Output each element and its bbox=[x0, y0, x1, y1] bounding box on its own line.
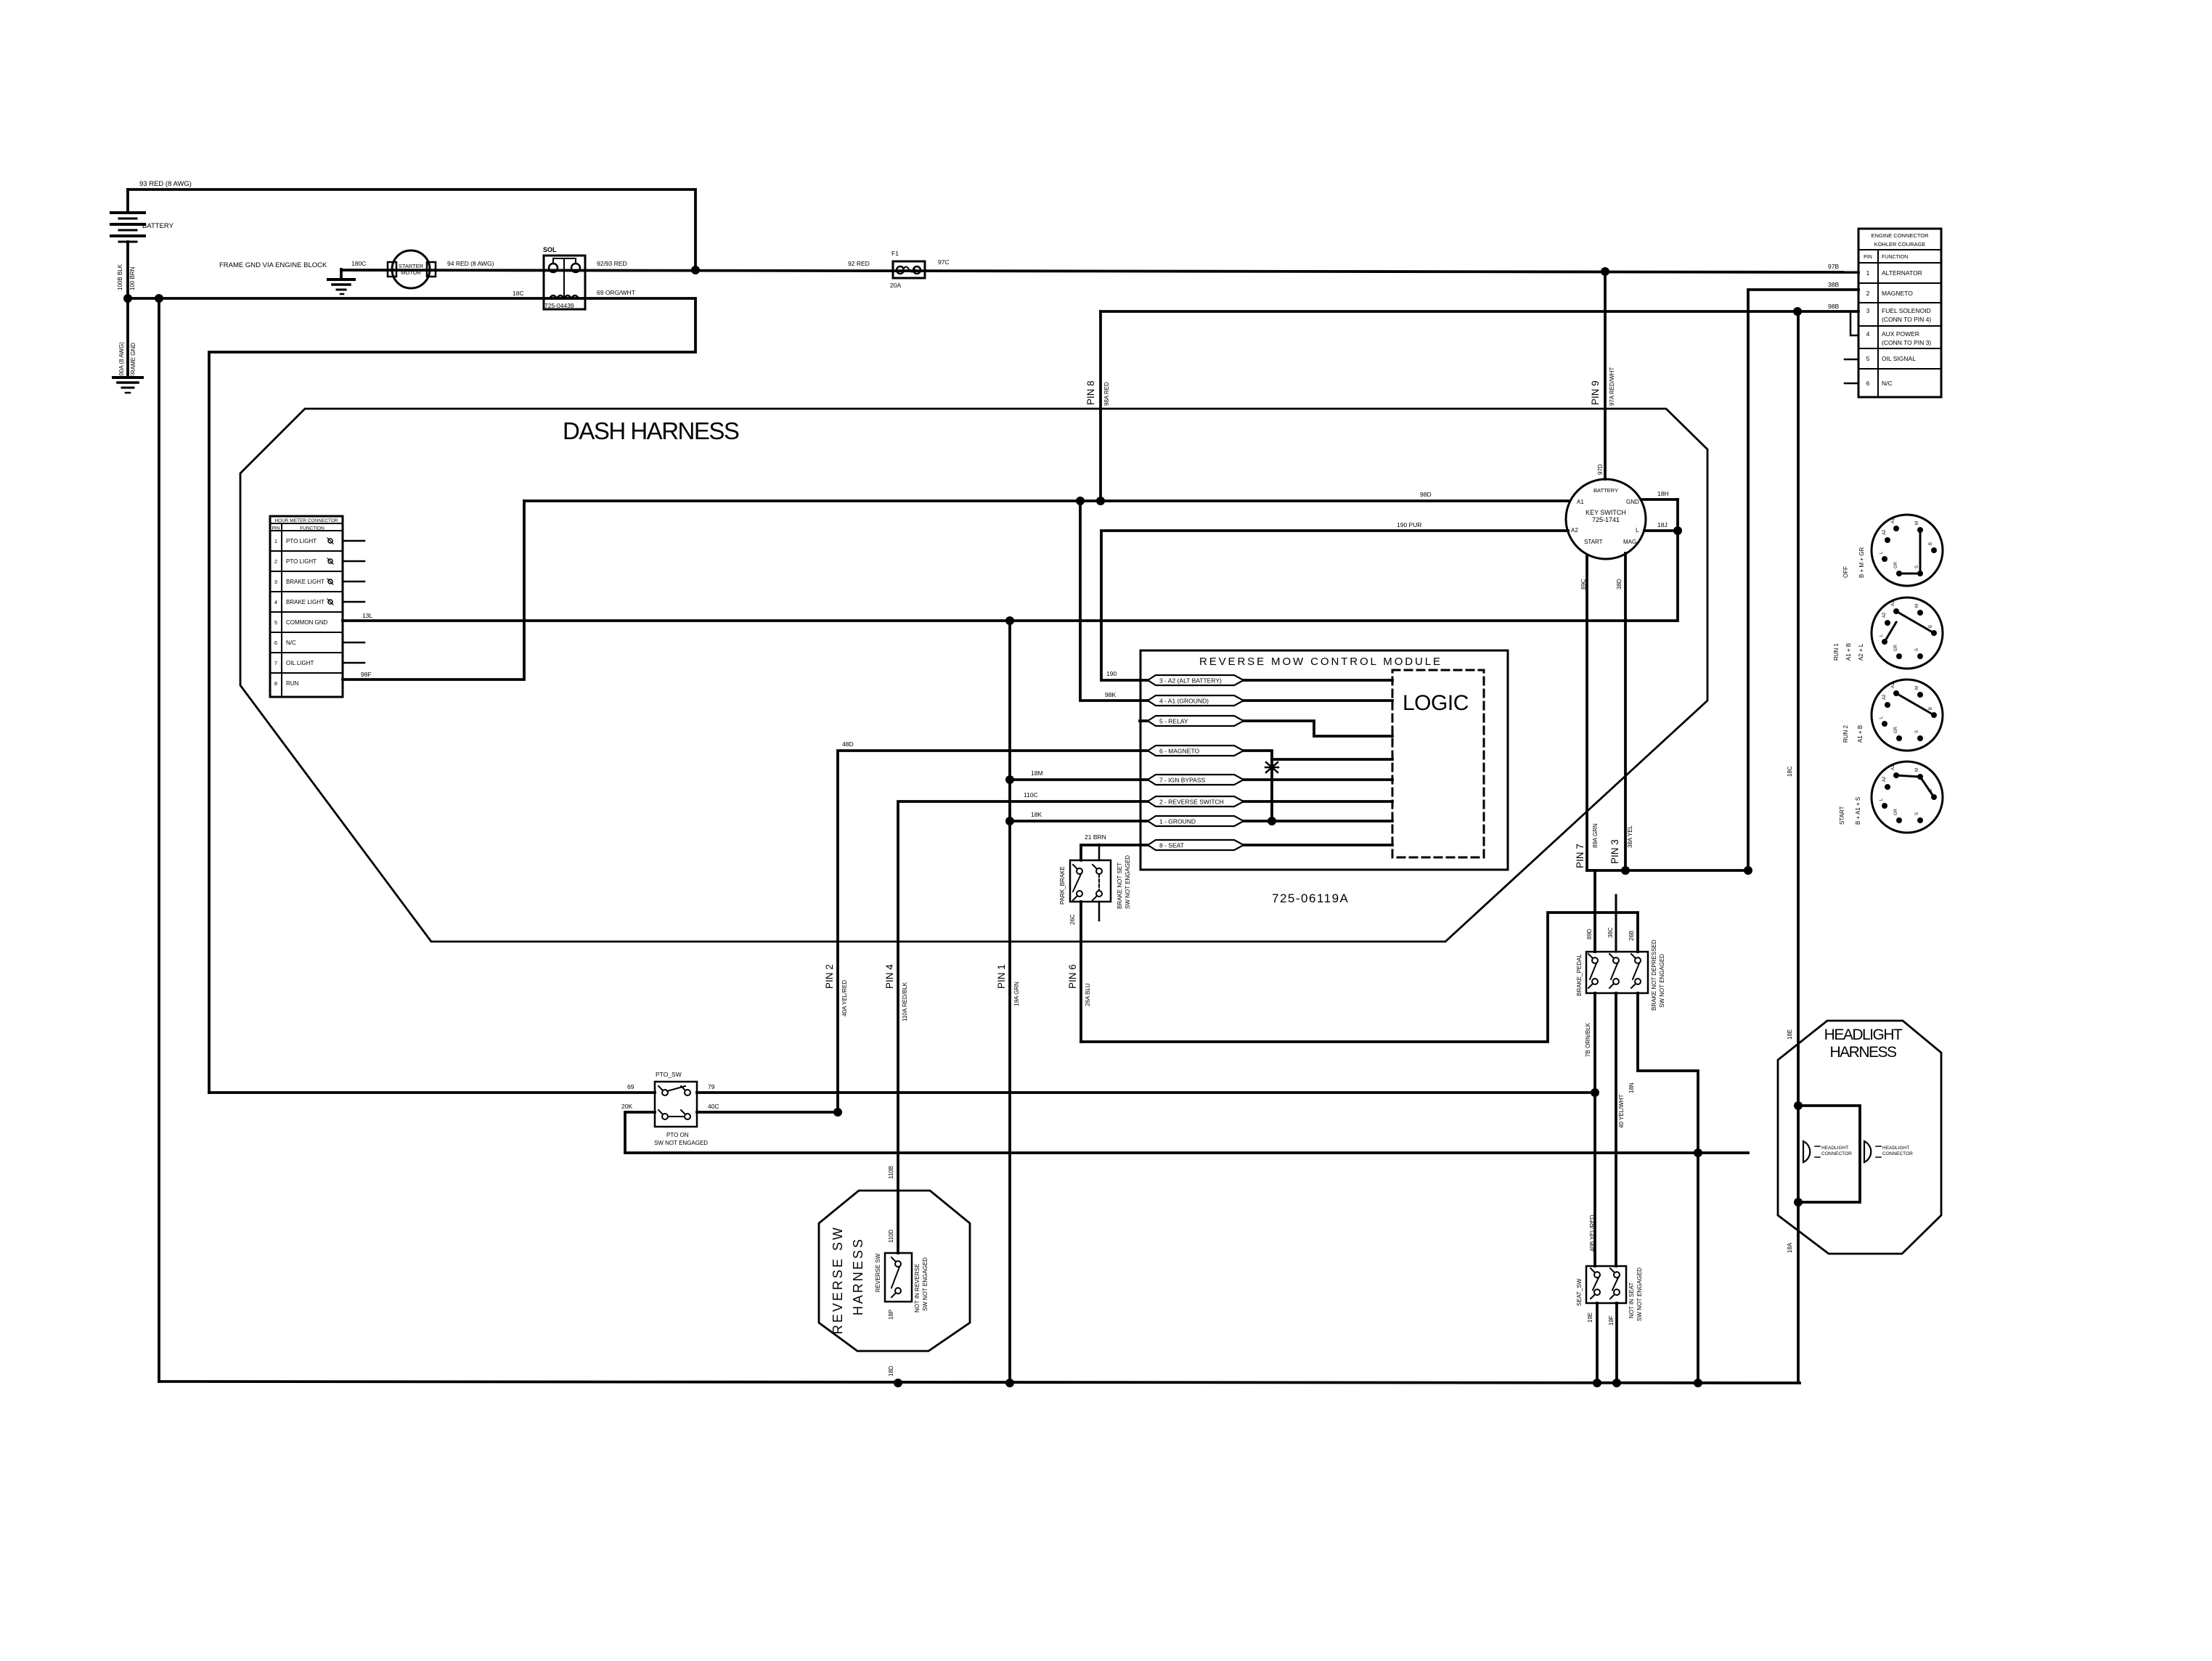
junction solenoid output bbox=[691, 266, 700, 274]
wire 18M ign bypass bbox=[1010, 778, 1148, 781]
svg-text:OIL SIGNAL: OIL SIGNAL bbox=[1882, 355, 1916, 362]
junction 18N crossing bbox=[1694, 1148, 1702, 1157]
wire 18J key L bbox=[1644, 529, 1678, 532]
wire 18 headlight vertical bbox=[1797, 311, 1800, 1383]
svg-text:5: 5 bbox=[1866, 355, 1870, 362]
engine connector pin5 stub bbox=[1845, 359, 1858, 361]
svg-text:26A BLU: 26A BLU bbox=[1085, 983, 1091, 1006]
svg-text:93 RED (8 AWG): 93 RED (8 AWG) bbox=[139, 180, 192, 188]
wire 69 to PTO bbox=[209, 1091, 655, 1094]
svg-text:PTO ON: PTO ON bbox=[666, 1132, 689, 1138]
svg-text:M: M bbox=[1915, 768, 1919, 772]
wire 40C PTO to pin2 bbox=[697, 1111, 838, 1114]
svg-text:4: 4 bbox=[274, 599, 277, 605]
svg-text:PIN 9: PIN 9 bbox=[1590, 380, 1601, 405]
svg-text:FUEL SOLENOID: FUEL SOLENOID bbox=[1882, 307, 1931, 314]
svg-text:18D: 18D bbox=[888, 1366, 894, 1376]
junction 18H/18J bbox=[1673, 526, 1682, 535]
svg-text:PIN 2: PIN 2 bbox=[824, 964, 835, 989]
svg-text:13L: 13L bbox=[362, 612, 372, 619]
svg-text:PIN 8: PIN 8 bbox=[1085, 380, 1096, 405]
wire 98F hour meter run bbox=[343, 501, 524, 679]
svg-text:M: M bbox=[1915, 604, 1919, 608]
wire 98K to module A1 bbox=[1080, 501, 1148, 701]
svg-text:3 - A2 (ALT BATTERY): 3 - A2 (ALT BATTERY) bbox=[1159, 677, 1222, 685]
wire ground bus 19/18 bbox=[159, 1382, 1800, 1383]
svg-text:18J: 18J bbox=[1657, 521, 1668, 528]
svg-text:START: START bbox=[1584, 539, 1603, 545]
svg-text:BATTERY: BATTERY bbox=[142, 222, 174, 230]
svg-text:18A: 18A bbox=[1787, 1242, 1793, 1253]
wire 98B engine to pin8 bbox=[1101, 310, 1858, 313]
hour meter stub wires bbox=[343, 540, 364, 542]
svg-text:20A: 20A bbox=[890, 282, 901, 289]
park brake switch PARK_BRAKE bbox=[1070, 860, 1111, 902]
svg-text:A2: A2 bbox=[1882, 529, 1887, 535]
svg-text:100 BRN: 100 BRN bbox=[129, 266, 136, 290]
svg-text:7: 7 bbox=[274, 660, 277, 666]
svg-text:26C: 26C bbox=[1069, 914, 1076, 925]
starter motor M1 bbox=[388, 262, 396, 277]
svg-text:3: 3 bbox=[1866, 307, 1870, 314]
svg-text:3: 3 bbox=[274, 579, 277, 585]
module pin 1 - GROUND bbox=[1148, 816, 1244, 826]
svg-text:GR: GR bbox=[1894, 726, 1898, 733]
svg-text:HEADLIGHT: HEADLIGHT bbox=[1882, 1146, 1909, 1151]
svg-text:98A RED: 98A RED bbox=[1103, 382, 1110, 406]
module pin 8 - SEAT bbox=[1148, 840, 1244, 850]
key position diagram RUN 2 bbox=[1872, 679, 1943, 751]
svg-text:SOL: SOL bbox=[543, 246, 557, 253]
svg-text:110C: 110C bbox=[1024, 791, 1038, 799]
svg-text:REVERSE SW: REVERSE SW bbox=[830, 1225, 845, 1334]
solenoid SOL 725-04439 bbox=[544, 256, 585, 309]
dash harness outline bbox=[240, 409, 1707, 942]
svg-text:STARTER: STARTER bbox=[399, 263, 424, 269]
headlight connector right bbox=[1864, 1141, 1871, 1162]
svg-text:40 YEL/WHT: 40 YEL/WHT bbox=[1618, 1094, 1625, 1128]
svg-text:NOT IN REVERSE: NOT IN REVERSE bbox=[914, 1264, 921, 1313]
engine connector table bbox=[1858, 229, 1941, 397]
svg-text:HARNESS: HARNESS bbox=[1829, 1044, 1897, 1061]
module pin 4 - A1 (GROUND) bbox=[1148, 695, 1244, 706]
svg-text:A1 + B: A1 + B bbox=[1845, 643, 1852, 661]
wire 97D key switch battery feed bbox=[1604, 272, 1607, 479]
junction 13L/19 bbox=[1005, 616, 1014, 625]
svg-text:98D: 98D bbox=[1420, 491, 1432, 498]
svg-text:PIN 3: PIN 3 bbox=[1609, 839, 1620, 864]
svg-text:CONNECTOR: CONNECTOR bbox=[1821, 1151, 1852, 1156]
svg-text:HEADLIGHT: HEADLIGHT bbox=[1821, 1146, 1848, 1151]
svg-text:48D: 48D bbox=[842, 740, 854, 748]
svg-text:PIN 7: PIN 7 bbox=[1575, 844, 1585, 868]
wire pin 8 98A RED vertical bbox=[1099, 311, 1102, 501]
svg-text:A2: A2 bbox=[1882, 776, 1887, 782]
svg-text:18H: 18H bbox=[1657, 490, 1669, 497]
engine connector pin6 stub bbox=[1845, 383, 1858, 385]
wire 20K PTO bbox=[625, 1112, 655, 1153]
svg-text:97B: 97B bbox=[1828, 263, 1839, 270]
svg-text:97C: 97C bbox=[938, 258, 950, 266]
battery B1 bbox=[126, 189, 129, 213]
svg-text:1: 1 bbox=[1866, 269, 1870, 277]
wire pin 1 vertical 19A bbox=[1008, 621, 1011, 1383]
svg-text:B + A1 + S: B + A1 + S bbox=[1855, 797, 1861, 825]
svg-text:A2: A2 bbox=[1882, 612, 1887, 618]
svg-text:N/C: N/C bbox=[1882, 380, 1893, 387]
junction 98A/98D bbox=[1096, 497, 1105, 505]
svg-text:21 BRN: 21 BRN bbox=[1085, 833, 1106, 841]
junction 38D bbox=[1621, 866, 1630, 875]
svg-text:N/C: N/C bbox=[286, 640, 296, 646]
hour meter connector table bbox=[270, 516, 343, 697]
reverse sw harness octagon bbox=[819, 1191, 970, 1351]
svg-text:RUN: RUN bbox=[286, 680, 299, 687]
svg-text:6: 6 bbox=[274, 640, 277, 646]
svg-text:S: S bbox=[1915, 566, 1919, 568]
svg-text:7B ORN/BLK: 7B ORN/BLK bbox=[1585, 1022, 1591, 1057]
svg-text:PIN 4: PIN 4 bbox=[884, 964, 895, 989]
svg-text:97A RED/WHT: 97A RED/WHT bbox=[1609, 367, 1615, 406]
svg-text:A1 + B: A1 + B bbox=[1857, 725, 1864, 743]
svg-text:69 ORG/WHT: 69 ORG/WHT bbox=[597, 289, 635, 296]
svg-text:PTO_SW: PTO_SW bbox=[656, 1071, 682, 1078]
wire frame ground bus left vertical bbox=[158, 298, 160, 1382]
svg-text:SW NOT ENGAGED: SW NOT ENGAGED bbox=[922, 1257, 929, 1311]
svg-text:NOT IN SEAT: NOT IN SEAT bbox=[1628, 1282, 1635, 1318]
wire 110C reverse switch to pin4 bbox=[898, 801, 1148, 1253]
svg-text:MAG: MAG bbox=[1623, 539, 1636, 545]
svg-text:L: L bbox=[1636, 527, 1639, 534]
key position diagram RUN 1 bbox=[1872, 597, 1943, 669]
svg-text:PARK_BRAKE: PARK_BRAKE bbox=[1059, 866, 1066, 905]
svg-text:MAGNETO: MAGNETO bbox=[1882, 290, 1913, 297]
key position diagram START bbox=[1872, 762, 1943, 833]
module pin 2 - REVERSE SWITCH bbox=[1148, 796, 1244, 807]
svg-text:PIN: PIN bbox=[272, 526, 280, 531]
svg-text:92 RED: 92 RED bbox=[848, 260, 870, 267]
svg-text:2: 2 bbox=[274, 558, 277, 565]
svg-text:5: 5 bbox=[274, 619, 277, 626]
reverse mow control module box bbox=[1140, 650, 1508, 870]
svg-text:HEADLIGHT: HEADLIGHT bbox=[1824, 1027, 1903, 1043]
svg-text:2: 2 bbox=[1866, 290, 1870, 297]
seat switch SEAT_SW bbox=[1586, 1266, 1626, 1303]
svg-text:19F: 19F bbox=[1608, 1315, 1615, 1326]
svg-text:PIN 1: PIN 1 bbox=[996, 964, 1007, 989]
junction 98B headlight feed bbox=[1793, 307, 1802, 316]
junction 18M bbox=[1005, 775, 1014, 784]
wire 7B ORN/BLK brake to seat bbox=[1593, 993, 1596, 1266]
module pin 6 - MAGNETO bbox=[1148, 746, 1244, 756]
svg-text:38C: 38C bbox=[1607, 927, 1614, 938]
svg-text:98K: 98K bbox=[1105, 691, 1116, 698]
svg-text:A1: A1 bbox=[1577, 499, 1584, 505]
svg-text:18K: 18K bbox=[1031, 811, 1042, 818]
svg-text:18M: 18M bbox=[1031, 770, 1043, 777]
svg-text:18C: 18C bbox=[513, 290, 524, 297]
wire 38D key mag bbox=[1624, 553, 1627, 870]
svg-text:(CONN TO PIN 4): (CONN TO PIN 4) bbox=[1882, 316, 1931, 323]
ground frame gnd below battery bbox=[113, 376, 142, 379]
svg-text:BATTERY: BATTERY bbox=[1593, 487, 1618, 494]
svg-text:ENGINE CONNECTOR: ENGINE CONNECTOR bbox=[1871, 232, 1929, 239]
svg-text:S: S bbox=[1915, 730, 1919, 733]
ground frame gnd via engine block bbox=[340, 269, 343, 279]
svg-text:OFF: OFF bbox=[1842, 566, 1849, 578]
svg-text:BRAKE NOT SET: BRAKE NOT SET bbox=[1117, 862, 1123, 909]
svg-text:GND: GND bbox=[1626, 499, 1639, 505]
svg-text:89D: 89D bbox=[1586, 929, 1593, 939]
junction 40A/40C bbox=[833, 1108, 842, 1117]
svg-text:40B YEL/RED: 40B YEL/RED bbox=[1589, 1215, 1596, 1252]
junction headlight bottom bbox=[1794, 1198, 1803, 1207]
svg-text:PTO LIGHT: PTO LIGHT bbox=[286, 538, 317, 544]
svg-text:A1: A1 bbox=[1891, 764, 1895, 770]
junction 18N ground bbox=[1694, 1379, 1702, 1387]
svg-text:725-1741: 725-1741 bbox=[1592, 516, 1620, 523]
svg-text:START: START bbox=[1839, 806, 1845, 825]
svg-text:BRAKE LIGHT: BRAKE LIGHT bbox=[286, 579, 325, 585]
svg-text:110D: 110D bbox=[888, 1229, 894, 1243]
svg-text:M: M bbox=[1915, 686, 1919, 690]
junction module ground bbox=[1268, 817, 1276, 825]
svg-text:18C: 18C bbox=[1787, 766, 1793, 777]
svg-text:110A RED/BLK: 110A RED/BLK bbox=[902, 981, 908, 1021]
wire 18N brake right bbox=[1638, 993, 1698, 1383]
junction key switch feed bbox=[1601, 267, 1609, 276]
svg-text:COMMON GND: COMMON GND bbox=[286, 619, 328, 626]
wire 38C stub bbox=[1615, 895, 1617, 952]
svg-text:89A GRN: 89A GRN bbox=[1592, 823, 1599, 848]
svg-text:110B: 110B bbox=[888, 1166, 894, 1179]
svg-text:89C: 89C bbox=[1580, 579, 1587, 589]
svg-text:A1: A1 bbox=[1891, 518, 1895, 523]
junction seat grounds bbox=[1593, 1379, 1601, 1387]
svg-text:A2 + L: A2 + L bbox=[1858, 643, 1864, 661]
svg-text:OIL LIGHT: OIL LIGHT bbox=[286, 660, 314, 666]
svg-text:18P: 18P bbox=[888, 1310, 894, 1320]
wire 79 PTO to brake pedal bbox=[697, 1091, 1595, 1094]
headlight loop bbox=[1798, 1106, 1860, 1202]
svg-text:BRAKE NOT DEPRESSED: BRAKE NOT DEPRESSED bbox=[1651, 939, 1657, 1011]
logic block dashed bbox=[1392, 670, 1484, 857]
svg-text:190 PUR: 190 PUR bbox=[1397, 521, 1422, 528]
headlight harness octagon bbox=[1778, 1021, 1941, 1254]
module pin 5 - RELAY bbox=[1148, 716, 1244, 726]
junction 98K/98D bbox=[1076, 497, 1085, 505]
wire 40 YEL/WHT brake to seat bbox=[1615, 993, 1617, 1266]
module pin 3 - A2 (ALT BATTERY) bbox=[1148, 675, 1244, 685]
svg-text:2 - REVERSE SWITCH: 2 - REVERSE SWITCH bbox=[1159, 799, 1224, 806]
wire 19F seat right to ground bbox=[1615, 1303, 1618, 1383]
svg-text:4 - A1 (GROUND): 4 - A1 (GROUND) bbox=[1159, 698, 1209, 705]
wire 89/38 link bbox=[1587, 869, 1748, 872]
svg-text:SW NOT ENGAGED: SW NOT ENGAGED bbox=[1636, 1268, 1643, 1321]
junction 38B bbox=[1744, 866, 1752, 875]
svg-text:FRAME GND VIA ENGINE BLOCK: FRAME GND VIA ENGINE BLOCK bbox=[219, 261, 327, 269]
engine connector pin3-4 jumper bbox=[1850, 311, 1858, 335]
wire 38B engine magneto bbox=[1748, 290, 1858, 870]
svg-text:DASH HARNESS: DASH HARNESS bbox=[563, 417, 739, 444]
svg-text:5 - RELAY: 5 - RELAY bbox=[1159, 718, 1188, 725]
module pin wires to logic bbox=[1244, 679, 1392, 682]
svg-text:38B: 38B bbox=[1828, 281, 1839, 288]
svg-text:SW NOT ENGAGED: SW NOT ENGAGED bbox=[1659, 954, 1665, 1008]
svg-text:SW NOT ENGAGED: SW NOT ENGAGED bbox=[654, 1140, 708, 1146]
svg-text:LOGIC: LOGIC bbox=[1403, 691, 1469, 715]
svg-text:6 - MAGNETO: 6 - MAGNETO bbox=[1159, 748, 1199, 755]
svg-text:18N: 18N bbox=[1628, 1082, 1635, 1093]
svg-text:94 RED (8 AWG): 94 RED (8 AWG) bbox=[447, 260, 494, 267]
svg-text:A2: A2 bbox=[1882, 694, 1887, 700]
svg-text:RUN 2: RUN 2 bbox=[1842, 725, 1849, 743]
svg-text:100A (8 AWG): 100A (8 AWG) bbox=[118, 342, 125, 379]
svg-text:6: 6 bbox=[1866, 380, 1870, 387]
wire 190 PUR key A2 to module bbox=[1101, 531, 1568, 680]
svg-text:PIN 6: PIN 6 bbox=[1067, 964, 1078, 989]
svg-text:MOTOR: MOTOR bbox=[401, 269, 421, 276]
svg-text:69: 69 bbox=[627, 1083, 634, 1090]
wire 21 BRN seat to module bbox=[1081, 845, 1148, 860]
svg-text:REVERSE SW: REVERSE SW bbox=[875, 1253, 881, 1292]
svg-text:ALTERNATOR: ALTERNATOR bbox=[1882, 269, 1922, 277]
svg-text:AUX POWER: AUX POWER bbox=[1882, 330, 1919, 338]
svg-text:100B BLK: 100B BLK bbox=[117, 264, 123, 290]
junction reverse ground bbox=[894, 1379, 902, 1387]
svg-text:4: 4 bbox=[1866, 330, 1870, 338]
svg-text:A1: A1 bbox=[1891, 600, 1895, 606]
module pin 7 - IGN BYPASS bbox=[1148, 775, 1244, 785]
svg-text:18E: 18E bbox=[1787, 1029, 1793, 1040]
junction 18K bbox=[1005, 817, 1014, 825]
junction 79/7B bbox=[1591, 1088, 1599, 1097]
wire 20/38 long link bbox=[625, 1151, 1748, 1154]
key position diagram OFF bbox=[1872, 515, 1943, 586]
svg-text:CONNECTOR: CONNECTOR bbox=[1882, 1151, 1913, 1156]
svg-text:98F: 98F bbox=[361, 671, 372, 678]
svg-text:HOUR METER CONNECTOR: HOUR METER CONNECTOR bbox=[274, 518, 338, 523]
svg-text:20K: 20K bbox=[621, 1103, 632, 1110]
svg-text:HARNESS: HARNESS bbox=[851, 1237, 865, 1315]
fuse F1 20A bbox=[893, 261, 925, 278]
wire 26 run to brake pedal bbox=[1081, 913, 1638, 1042]
svg-text:BRAKE_PEDAL: BRAKE_PEDAL bbox=[1576, 954, 1583, 996]
transistor symbol in module bbox=[1266, 762, 1278, 772]
wire 19E seat left to ground bbox=[1596, 1303, 1599, 1383]
wire 48D module magneto to pin2 bbox=[838, 751, 1148, 1112]
wire 98D to key switch A1 bbox=[524, 499, 1568, 502]
svg-text:1 - GROUND: 1 - GROUND bbox=[1159, 818, 1196, 825]
svg-text:8 - SEAT: 8 - SEAT bbox=[1159, 842, 1184, 849]
svg-text:S: S bbox=[1915, 648, 1919, 651]
junction headlight top bbox=[1794, 1101, 1803, 1110]
svg-text:A2: A2 bbox=[1571, 527, 1578, 534]
svg-text:BRAKE LIGHT: BRAKE LIGHT bbox=[286, 599, 325, 605]
wire 89C key start bbox=[1585, 556, 1588, 870]
svg-text:F1: F1 bbox=[891, 250, 899, 257]
svg-text:FUNCTION: FUNCTION bbox=[1882, 255, 1908, 260]
svg-text:190: 190 bbox=[1106, 670, 1117, 677]
wire 18C solenoid coil return bbox=[128, 298, 695, 1093]
svg-text:26B: 26B bbox=[1628, 931, 1635, 941]
junction left vertical bbox=[155, 294, 163, 303]
svg-text:A1: A1 bbox=[1891, 682, 1895, 688]
svg-text:38A YEL: 38A YEL bbox=[1627, 825, 1633, 848]
svg-text:GR: GR bbox=[1894, 561, 1898, 568]
wire main power line 92/93/97 RED bbox=[341, 270, 1858, 272]
wire 26C park brake to pin6 bbox=[1080, 902, 1082, 1042]
svg-text:KOHLER COURAGE: KOHLER COURAGE bbox=[1874, 241, 1926, 248]
svg-text:FUNCTION: FUNCTION bbox=[300, 526, 325, 531]
svg-text:725-06119A: 725-06119A bbox=[1272, 891, 1349, 905]
svg-text:B: B bbox=[1929, 625, 1933, 628]
svg-text:REVERSE MOW CONTROL MODULE: REVERSE MOW CONTROL MODULE bbox=[1199, 656, 1442, 668]
svg-text:PTO LIGHT: PTO LIGHT bbox=[286, 558, 317, 565]
headlight connector left bbox=[1803, 1141, 1810, 1162]
svg-text:B: B bbox=[1929, 542, 1933, 545]
svg-text:PIN: PIN bbox=[1864, 255, 1872, 260]
junction pin1 ground bbox=[1005, 1379, 1014, 1387]
svg-text:FRAME GND: FRAME GND bbox=[130, 343, 136, 377]
brake pedal switch BRAKE_PEDAL bbox=[1586, 952, 1648, 993]
svg-text:GR: GR bbox=[1894, 644, 1898, 651]
reverse switch REVERSE_SW bbox=[885, 1253, 912, 1302]
svg-text:M: M bbox=[1915, 521, 1919, 525]
svg-text:KEY SWITCH: KEY SWITCH bbox=[1585, 509, 1626, 516]
svg-text:1: 1 bbox=[274, 538, 277, 544]
svg-text:180C: 180C bbox=[351, 260, 366, 267]
svg-text:GR: GR bbox=[1894, 808, 1898, 815]
svg-text:S: S bbox=[1915, 812, 1919, 815]
svg-text:38D: 38D bbox=[1616, 579, 1623, 589]
svg-text:98B: 98B bbox=[1828, 303, 1839, 310]
svg-text:B: B bbox=[1929, 707, 1933, 710]
key switch 725-1741 bbox=[1566, 479, 1646, 559]
svg-text:(CONN TO PIN 3): (CONN TO PIN 3) bbox=[1882, 339, 1931, 346]
svg-text:725-04439: 725-04439 bbox=[544, 302, 574, 309]
svg-text:79: 79 bbox=[708, 1083, 715, 1090]
svg-text:97D: 97D bbox=[1597, 464, 1604, 475]
svg-text:B + M + GR: B + M + GR bbox=[1858, 547, 1865, 578]
svg-text:19A GRN: 19A GRN bbox=[1013, 981, 1020, 1006]
svg-text:SEAT_SW: SEAT_SW bbox=[1576, 1278, 1583, 1306]
svg-text:SW NOT ENGAGED: SW NOT ENGAGED bbox=[1125, 855, 1131, 909]
wire 18K ground bbox=[1010, 820, 1148, 823]
junction battery neg bbox=[123, 294, 132, 303]
svg-text:RUN 1: RUN 1 bbox=[1833, 642, 1840, 661]
PTO switch PTO_SW bbox=[655, 1082, 697, 1127]
svg-text:7 - IGN BYPASS: 7 - IGN BYPASS bbox=[1159, 777, 1205, 784]
svg-text:40C: 40C bbox=[708, 1103, 719, 1110]
wire 18H key gnd bbox=[1641, 498, 1678, 501]
svg-text:8: 8 bbox=[274, 680, 277, 687]
wire 93 RED (8 AWG) battery to solenoid junction bbox=[128, 189, 695, 270]
svg-text:19E: 19E bbox=[1587, 1313, 1593, 1323]
svg-text:40A YEL/RED: 40A YEL/RED bbox=[841, 980, 848, 1016]
svg-text:92/93 RED: 92/93 RED bbox=[597, 260, 627, 267]
wire 13L / 18 line bbox=[343, 499, 1678, 621]
